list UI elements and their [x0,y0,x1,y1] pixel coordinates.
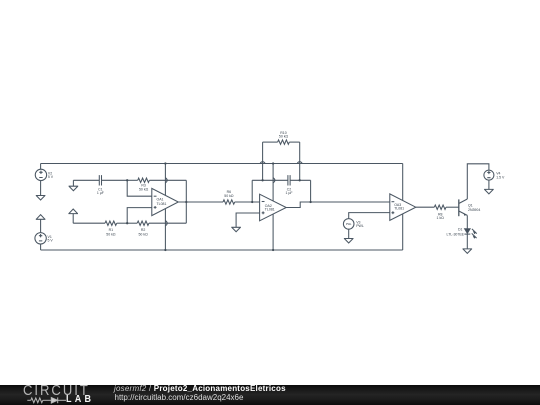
wire R3 to feedback corner [149,179,186,181]
wire V3 to ground [348,229,350,238]
svg-text:1 µF: 1 µF [285,191,292,195]
wire OA2 V+ pin [272,164,274,202]
wire OA2 to OA3 minus [311,201,390,203]
svg-text:TL081: TL081 [394,207,404,211]
svg-text:PWL: PWL [346,222,352,226]
hop OA1 supply over R2 wire [165,221,167,226]
svg-text:50 kΩ: 50 kΩ [139,187,149,191]
OA3 plus mark [392,211,395,214]
svg-text:OA1: OA1 [157,198,164,202]
svg-text:1.5 V: 1.5 V [496,175,505,179]
op-amp OA3 [390,194,416,221]
wire OA2 plus input to ground [236,213,260,227]
wire R10 left lead [263,141,278,143]
capacitor C2 [288,175,290,185]
resistor R1 [105,221,117,225]
wire feedback right edge lower [185,202,187,223]
svg-text:50 kΩ: 50 kΩ [279,135,289,139]
ground left of C1 [69,180,79,190]
wire R10 right lead [289,141,299,143]
wire LED to ground [466,234,468,249]
junction node dots [164,162,166,164]
label C1 value [97,187,104,195]
label C2 value [285,187,292,195]
wire plus-node jog to OA1 [127,208,152,224]
node flag at R1 input [68,209,78,223]
wire OA3 V- pin [402,214,404,250]
voltage source V1 [35,233,46,244]
wire V4 to ground [488,180,490,189]
svg-text:TL081: TL081 [157,202,167,206]
footer url line [115,393,244,402]
resistor R6 [223,200,235,204]
resistor R8 [434,205,446,209]
wire OA1 V- pin [164,209,166,250]
wire R2 to feedback corner [149,222,186,224]
op-amp OA2 [260,194,287,221]
wire OA3 output [416,206,435,208]
hop OA2 supply over C2 wire [273,178,275,183]
CircuitLab logo schematic [0,0,110,405]
label R1 value [106,228,116,236]
voltage source V2 [35,164,46,181]
wire OA2 output jog [286,202,310,208]
resistor R10 [278,140,290,144]
svg-text:PWL: PWL [356,224,364,228]
capacitor C1 [99,175,101,185]
label R2 value [138,228,148,236]
LED D1 [464,229,470,235]
svg-text:2N3904: 2N3904 [468,208,480,212]
label R10 value [279,131,289,139]
wire top supply rail [41,163,403,165]
svg-text:TL081: TL081 [265,208,275,212]
Q1 emitter arrow [463,213,466,216]
wire V1 to bottom rail [40,244,42,250]
wire node to R3 [127,179,138,181]
svg-text:50 kΩ: 50 kΩ [224,194,234,198]
OA2 plus mark [262,211,265,214]
voltage source V3 [343,219,354,230]
wire R1 to node [117,222,128,224]
wire C2 left lead [252,179,288,181]
logo wire mid [43,399,52,401]
wire OA1 V+ pin [164,164,166,196]
voltage source V4 [484,170,494,180]
op-amp OA1 [152,188,179,215]
wire node to R2 [127,222,137,224]
wire OA3 V+ pin [402,164,404,201]
resistor R2 [137,221,149,225]
ground below V4 [484,189,494,194]
ground below V3 [344,239,354,244]
wire C1 to node [102,179,128,181]
logo wire end [58,399,66,401]
wire R10 right vertical [299,142,301,180]
logo wire lead [27,399,31,401]
svg-text:50 kΩ: 50 kΩ [138,232,148,236]
logo resistor [31,398,43,403]
resistor R3 [138,178,150,182]
footer title line [114,384,286,393]
wire feedback right edge upper [185,180,187,202]
wire bottom supply rail [41,249,403,251]
wire ground to C1 [73,179,99,181]
wire C2 left vertical [251,180,253,202]
wire R8 to Q1 base [446,206,459,208]
LED light arrows [472,229,477,239]
node flag above V1 [36,215,46,233]
wire minus-node jog to OA1 [127,180,152,196]
wire OA1 output [178,201,223,203]
svg-text:Q1: Q1 [468,203,473,207]
hop rail over R10 left [260,162,265,164]
wire OA3 plus input [349,213,390,219]
wire R10 left vertical [262,142,264,180]
footer bar [0,385,540,405]
wire OA2 V- pin [272,214,274,250]
logo diode [51,398,57,404]
svg-text:LTL-307EE: LTL-307EE [447,233,465,237]
wire Q1 collector to V4 [467,164,489,199]
OA3 minus mark [392,201,395,203]
hop OA1 supply over R3 wire [165,178,167,183]
CircuitLab logo text LAB [66,394,94,405]
label R3 value [139,184,149,192]
CircuitLab logo text CIRCUIT [23,383,90,399]
wire flag to R1 [73,222,105,224]
ground below LED [463,249,473,254]
ground at OA2 plus input [231,227,241,232]
OA1 minus mark [154,195,157,197]
label R8 value [437,212,445,220]
wire C2 right vertical [310,180,312,202]
svg-text:D1: D1 [458,228,463,232]
OA2 minus mark [262,201,265,203]
transistor Q1 [459,199,468,216]
wire V2 to ground [40,181,42,196]
svg-text:1 kΩ: 1 kΩ [437,216,445,220]
wire Q1 emitter to LED [466,215,468,228]
ground below V2 [36,196,46,201]
label R6 value [224,190,234,198]
wire R6 to OA2 minus [235,201,260,203]
OA1 plus mark [154,206,157,209]
wire C2 right lead [290,179,311,181]
hop rail over R10 right [297,162,302,164]
